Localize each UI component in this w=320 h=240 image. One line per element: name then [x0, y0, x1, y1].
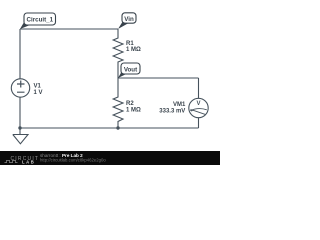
svg-text:333.3 mV: 333.3 mV [159, 108, 185, 114]
svg-text:http://circuitlab.com/c8kp462e: http://circuitlab.com/c8kp462e2g0o [40, 157, 106, 162]
svg-text:Circuit_1: Circuit_1 [27, 16, 54, 23]
svg-text:1 MΩ: 1 MΩ [126, 107, 141, 113]
svg-text:VM1: VM1 [173, 102, 186, 108]
svg-text:V1: V1 [34, 84, 42, 90]
junction node R2 bottom [116, 126, 119, 129]
svg-text:R2: R2 [126, 101, 134, 107]
wire meter column lower [198, 118, 200, 128]
svg-text:R1: R1 [126, 41, 134, 47]
wire meter column upper [198, 78, 200, 98]
svg-text:V: V [196, 101, 200, 107]
wire top horizontal [20, 28, 118, 30]
svg-text:1 MΩ: 1 MΩ [126, 47, 141, 53]
ground [13, 128, 28, 144]
voltmeter needle arrowhead [190, 109, 193, 112]
voltmeter VM1 [189, 98, 208, 117]
footer bar [0, 151, 220, 165]
resistor R2 [113, 78, 123, 128]
flag Vout [118, 63, 140, 78]
svg-text:Vin: Vin [124, 16, 134, 23]
junction node bottom-left [18, 126, 21, 129]
svg-text:LAB: LAB [22, 159, 35, 164]
footer logo waveform [5, 160, 18, 162]
svg-text:1 V: 1 V [34, 90, 43, 96]
flag Circuit_1 [20, 13, 56, 29]
wire bottom horizontal [20, 127, 199, 129]
svg-text:Vout: Vout [124, 66, 137, 73]
wire Vout to meter horizontal [118, 77, 199, 79]
voltage source V1 [11, 79, 29, 97]
wire left column upper [19, 29, 21, 79]
flag Vin [118, 13, 136, 29]
wire left column lower [19, 97, 21, 128]
resistor R1 [113, 29, 123, 78]
